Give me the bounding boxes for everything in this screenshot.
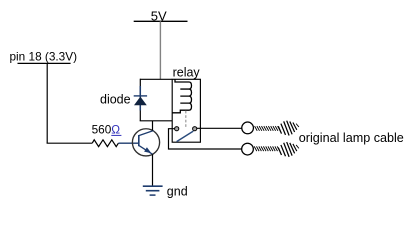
relay contact right <box>193 127 197 131</box>
power rail 5V <box>134 8 188 23</box>
svg-text:original lamp cable: original lamp cable <box>299 131 404 145</box>
cable cut-end scribble top <box>278 121 299 136</box>
node pin 18 (3.3V) label <box>10 50 78 64</box>
relay mechanical link (dashed) <box>185 111 187 127</box>
wire collector <box>152 121 154 131</box>
relay coil <box>172 79 191 112</box>
ground <box>143 185 188 199</box>
svg-text:pin 18 (3.3V): pin 18 (3.3V) <box>10 50 78 64</box>
svg-text:diode: diode <box>100 92 131 106</box>
wire right contact to top lamp terminal <box>197 127 242 129</box>
wire pin18 down <box>46 63 48 143</box>
relay contact left <box>175 127 179 131</box>
svg-text:gnd: gnd <box>167 185 188 199</box>
resistor 560 ohm <box>92 123 122 147</box>
svg-text:560: 560 <box>92 123 112 137</box>
cable cut-end scribble bottom <box>278 142 299 157</box>
wire 5V vertical <box>159 21 161 79</box>
relay switch blade <box>177 131 194 142</box>
relay K1 box <box>172 79 200 142</box>
transistor Q1 <box>132 129 159 156</box>
lamp terminal bottom <box>242 143 254 155</box>
lamp terminal top <box>242 122 254 134</box>
svg-text:relay: relay <box>173 65 201 79</box>
cable hatch top <box>255 126 281 131</box>
diode D1 <box>134 86 147 111</box>
wire diode branch vertical <box>139 79 141 121</box>
wire left contact wrap to bottom lamp terminal <box>169 129 242 149</box>
wire top rail to relay <box>140 78 172 80</box>
svg-text:5V: 5V <box>151 8 167 23</box>
svg-text:Ω: Ω <box>111 123 120 137</box>
wire pin18 to resistor <box>47 142 93 144</box>
cable hatch bottom <box>254 146 280 151</box>
wire bottom of diode loop <box>140 120 173 122</box>
wire resistor to base <box>118 142 138 144</box>
wire emitter to ground <box>152 154 154 186</box>
